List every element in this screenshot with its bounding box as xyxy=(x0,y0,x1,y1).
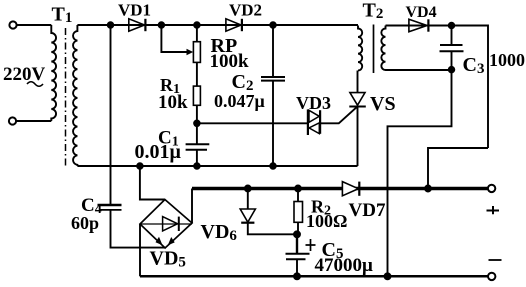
bridge rectifier VD5 xyxy=(140,200,192,249)
svg-text:1000: 1000 xyxy=(489,50,525,70)
label VD7 xyxy=(349,200,386,221)
svg-text:60p: 60p xyxy=(71,213,99,233)
node junction R2 top xyxy=(295,186,301,192)
svg-text:VS: VS xyxy=(370,93,396,115)
label C5 xyxy=(322,239,344,262)
label VD4 xyxy=(406,4,437,21)
wire T2 secondary top xyxy=(386,26,489,149)
potentiometer RP xyxy=(193,25,200,62)
label 0.01u xyxy=(135,141,182,163)
capacitor C5 xyxy=(286,234,310,276)
node junction C3 bottom xyxy=(449,67,455,73)
wire bridge plus up xyxy=(191,189,193,224)
transformer T2 secondary winding xyxy=(381,26,385,71)
node junction C2 top xyxy=(270,22,276,28)
node junction bridge feed xyxy=(137,163,143,169)
wire plus node step xyxy=(428,148,488,189)
svg-text:VD2: VD2 xyxy=(229,1,262,20)
svg-text:VD1: VD1 xyxy=(118,1,151,20)
wire mid rail (T1 secondary bottom) xyxy=(77,165,357,167)
svg-text:T2: T2 xyxy=(363,0,384,22)
node junction C2 bottom xyxy=(270,163,276,169)
label VD2 xyxy=(229,1,262,20)
label C4 xyxy=(81,195,102,217)
transformer T2 core xyxy=(373,25,375,74)
svg-text:T1: T1 xyxy=(52,4,73,27)
transformer T1 primary winding xyxy=(51,25,56,121)
label T2 xyxy=(363,0,384,22)
wire bottom rail xyxy=(140,275,488,278)
diode VD7 xyxy=(342,182,359,196)
capacitor C2 xyxy=(261,25,285,166)
label VD5 xyxy=(150,248,186,271)
label 10k xyxy=(158,92,188,113)
node junction RP top xyxy=(194,22,200,28)
label 220V xyxy=(3,64,46,86)
svg-text:VD5: VD5 xyxy=(150,248,186,271)
svg-text:220V: 220V xyxy=(3,64,46,85)
wire plus rail thick xyxy=(192,187,488,191)
wire bridge top feed xyxy=(140,166,165,200)
resistor R2 xyxy=(294,189,303,235)
label 47000u xyxy=(315,255,374,276)
node junction R1 bottom xyxy=(194,121,200,127)
thyristor VS xyxy=(349,71,366,167)
node junction C3 return bottom xyxy=(385,273,391,279)
label C5 plus sign xyxy=(306,239,316,251)
terminal input bottom xyxy=(9,117,16,124)
label C3 xyxy=(463,54,485,77)
wire T2 secondary bottom xyxy=(386,69,452,71)
node junction C5 bottom xyxy=(294,273,300,279)
label VD3 xyxy=(296,93,331,113)
label R2 xyxy=(311,197,331,219)
svg-text:VD7: VD7 xyxy=(349,200,386,221)
svg-text:VD6: VD6 xyxy=(201,221,238,244)
wire input bottom xyxy=(16,120,51,122)
wire RP to R1 xyxy=(196,62,198,86)
svg-text:0.047μ: 0.047μ xyxy=(214,91,265,111)
terminal output minus xyxy=(488,273,495,280)
label 100ohm xyxy=(306,211,347,231)
capacitor C4 xyxy=(98,25,166,248)
node junction VD6 anode xyxy=(245,186,251,192)
diode VD2 xyxy=(226,19,242,31)
label T1 xyxy=(52,4,73,27)
wire gate row xyxy=(197,122,308,124)
svg-text:100Ω: 100Ω xyxy=(306,211,347,231)
terminal input top xyxy=(9,21,16,28)
node junction plus step xyxy=(425,186,431,192)
label plus output xyxy=(487,206,500,214)
label RP xyxy=(211,35,238,57)
capacitor C1 xyxy=(186,123,210,166)
node junction C3 top xyxy=(449,23,455,29)
resistor R1 xyxy=(193,86,200,123)
transformer T2 primary winding xyxy=(358,26,362,71)
wire C3 return to minus rail xyxy=(388,70,452,277)
svg-text:VD3: VD3 xyxy=(296,93,331,113)
label VD1 xyxy=(118,1,151,20)
node junction R2 bottom xyxy=(294,231,300,237)
label VS xyxy=(370,93,396,115)
diode VD4 xyxy=(409,19,429,31)
label 100k xyxy=(210,51,250,72)
label C2 xyxy=(232,71,254,94)
label VD6 xyxy=(201,221,238,244)
wire VD3 to VS gate xyxy=(321,107,357,123)
label C1 xyxy=(158,128,179,150)
label minus output xyxy=(489,259,502,261)
label 0.047u xyxy=(214,91,265,111)
capacitor C3 xyxy=(440,26,464,70)
svg-text:100k: 100k xyxy=(210,51,250,72)
wire bridge minus to bottom rail xyxy=(139,224,141,276)
svg-text:C3: C3 xyxy=(463,54,485,77)
label R1 xyxy=(160,75,180,97)
node junction RP wiper tap xyxy=(159,22,165,28)
transformer T1 core xyxy=(65,28,67,167)
diac VD3 xyxy=(308,109,320,135)
diode VD1 xyxy=(129,19,146,31)
svg-text:0.01μ: 0.01μ xyxy=(135,141,182,163)
transformer T1 secondary winding xyxy=(73,25,77,166)
wire top rail xyxy=(77,24,358,26)
diode VD6 xyxy=(240,189,297,235)
svg-text:10k: 10k xyxy=(158,92,188,113)
potentiometer RP wiper arrow xyxy=(161,25,193,55)
label 1000 xyxy=(489,50,525,70)
wire input top xyxy=(16,24,51,26)
node junction C1 bottom xyxy=(194,163,200,169)
svg-text:VD4: VD4 xyxy=(406,4,437,21)
node junction top C4 xyxy=(108,22,114,28)
svg-text:47000μ: 47000μ xyxy=(315,255,374,276)
label 60p xyxy=(71,213,99,233)
terminal output plus xyxy=(488,185,495,192)
